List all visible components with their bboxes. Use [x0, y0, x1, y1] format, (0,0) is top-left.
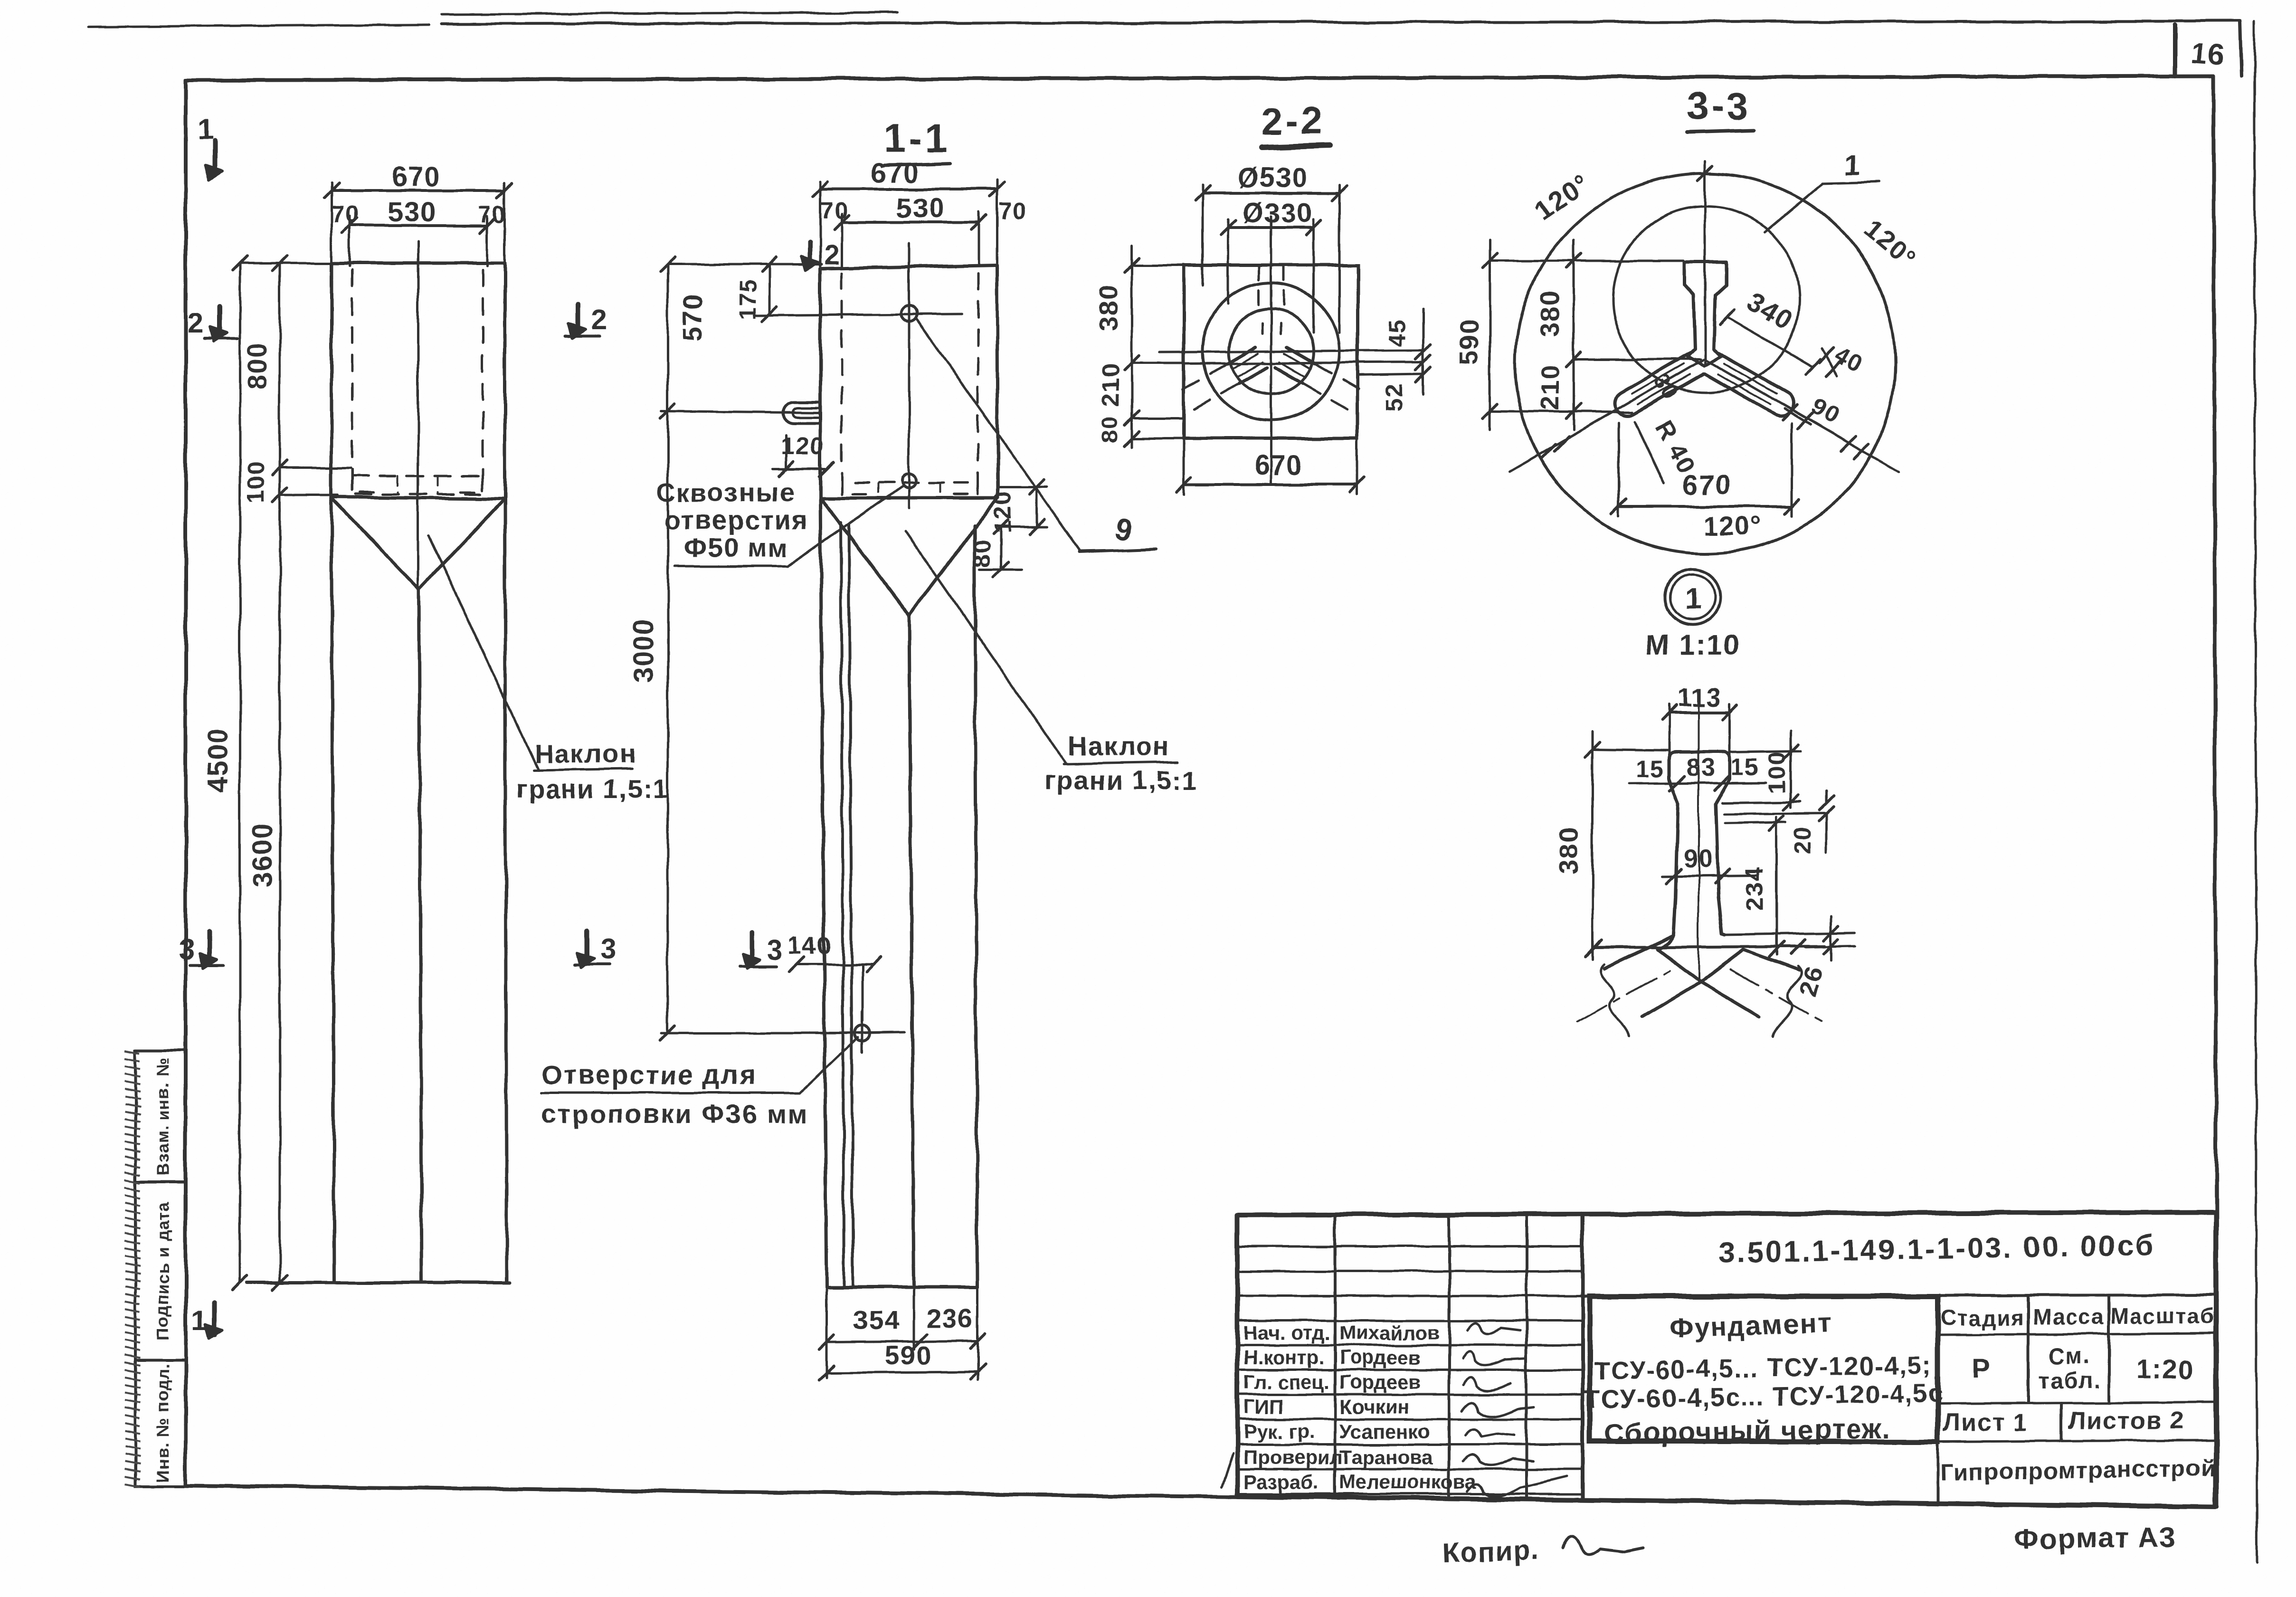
stamp hatch edge	[125, 1051, 140, 1487]
detail: dim 113	[1669, 711, 1730, 713]
left view: dim 800/100/3600 line	[279, 263, 281, 1283]
detail: dim 100	[1790, 732, 1792, 808]
3-3: R40 radius leader	[1635, 422, 1664, 484]
2-2: left dims 380/210/80	[1131, 246, 1133, 447]
1-1: leader to naklon grani right	[906, 532, 1066, 764]
2-2: lower-left leg	[1239, 367, 1267, 383]
1-1: shaft center leg line	[909, 616, 914, 1287]
left view: center line	[417, 241, 419, 589]
2-2: bottom dim 670	[1184, 483, 1357, 486]
section mark 3 right	[585, 931, 589, 961]
3-3: callout leader 1	[1765, 183, 1822, 232]
3-3: dim 380/210 left	[1573, 240, 1575, 430]
left view: shaft bottom edge	[247, 1281, 510, 1284]
2-2: right dims 45/52	[1422, 309, 1424, 394]
kopir signature	[1563, 1536, 1643, 1555]
2-2: lower-right leg	[1287, 347, 1315, 363]
left view: leader naklon grani	[428, 535, 538, 770]
section mark 1 top	[212, 141, 217, 174]
3-3: vertical centerline	[1704, 162, 1707, 366]
left view: extension lines left	[240, 262, 332, 265]
1-1: dim 570 / 3000 line	[667, 264, 669, 1033]
2-2: inner circle D330	[1228, 309, 1314, 394]
3-3: dim 90	[1784, 409, 1811, 425]
detail: dim 26	[1725, 933, 1855, 935]
left view: cup outline	[332, 263, 505, 499]
left stamp boxes	[135, 1049, 186, 1052]
detail: dim 90 web	[1662, 875, 1757, 876]
3-3: big circle	[1515, 173, 1895, 553]
1-1: right side dim 80	[979, 569, 1021, 571]
1-1: leader 9 from upper hole	[917, 319, 1080, 550]
left view: dim 530	[350, 224, 487, 227]
section mark 3 at 1-1	[750, 932, 755, 962]
right section verticals	[1936, 1296, 1939, 1505]
2-2: square outline	[1184, 265, 1357, 438]
3-3: rail section vertical leg	[1684, 262, 1726, 366]
detail: junction vee	[1657, 949, 1743, 982]
left view: shaft center leg edge	[419, 589, 422, 1283]
section mark 3 left	[207, 932, 212, 962]
name box heavy border	[1590, 1296, 1938, 1442]
detail: dim 234	[1775, 817, 1778, 955]
title block signature table verticals	[1334, 1215, 1337, 1497]
detail: dims 15/83/15	[1629, 783, 1766, 784]
page number box	[2173, 25, 2177, 76]
section mark 2 at 1-1	[808, 242, 813, 264]
left view: dim 670 top	[332, 189, 505, 192]
1-1: cavity bottom dashed profile	[842, 480, 874, 494]
1-1: center vertical line	[908, 244, 911, 508]
slash before proveril	[1222, 1454, 1233, 1487]
left view: cup cavity bottom dashed profile	[352, 475, 483, 477]
left view: cup inner dashed walls	[351, 270, 353, 475]
1-1: upper hole F50	[901, 305, 917, 322]
3-3: left leg slot	[1615, 352, 1704, 416]
left view: shaft left edge	[332, 497, 334, 1283]
1-1: lower hole F50	[902, 474, 916, 488]
1-1: shaft right edge	[974, 526, 977, 1287]
2-2: dim D530	[1203, 192, 1339, 195]
left view: dim 4500 line	[239, 263, 241, 1283]
1-1: shaft bottom edge	[826, 1286, 977, 1289]
1-1: cup dashed inner walls	[841, 273, 843, 480]
left view: taper V right	[419, 499, 505, 589]
1-1: bottom dim 590	[826, 1372, 977, 1373]
1-1: right side dim 120	[998, 486, 1047, 489]
3-3: dim 40 leg width	[1822, 349, 1837, 375]
detail: right leg	[1743, 950, 1799, 970]
2-2: second line 45 offset	[1184, 362, 1423, 363]
sheet right edge line	[2254, 22, 2257, 1563]
2-2: outer circle D530	[1203, 283, 1339, 420]
1-1: taper V left	[821, 499, 909, 616]
1-1: lifting loop on left face	[784, 402, 820, 423]
3-3: extensions left	[1490, 260, 1683, 262]
3-3: diagonal centerline right	[1704, 359, 1899, 472]
1-1: cup outline	[820, 265, 998, 498]
title block doc number cell	[1583, 1295, 2216, 1296]
1-1: shaft left edge	[820, 498, 826, 1287]
3-3: dim 340 along right leg	[1727, 317, 1812, 367]
sheet top edge line	[88, 25, 430, 27]
right section horizontals	[1938, 1333, 2216, 1335]
1-1: dim 120 loop	[785, 435, 787, 470]
2-2: center lines	[1270, 216, 1272, 485]
1-1: shaft inner pair lines	[841, 523, 844, 1287]
1-1: dim 530	[842, 221, 979, 224]
1-1: extension to 3000 dim	[662, 1032, 841, 1035]
detail: base line	[1594, 946, 1825, 948]
3-3: diagonal centerline left	[1509, 359, 1704, 472]
section mark 2 left	[217, 306, 222, 335]
3-3: right leg slot	[1705, 352, 1793, 416]
2-2: dim D330	[1228, 226, 1314, 229]
section mark 1 bottom	[212, 1302, 217, 1335]
section mark 2 right	[575, 304, 580, 333]
detail: rail profile	[1657, 752, 1730, 949]
3-3: bottom dim 670	[1619, 505, 1792, 508]
3-3: detail callout circle	[1613, 206, 1799, 392]
left view: shaft right edge	[505, 499, 507, 1283]
1-1: taper V right	[909, 499, 997, 616]
left view: taper V left	[332, 499, 419, 589]
signature scribbles	[1468, 1323, 1520, 1334]
drawing frame border	[186, 76, 2213, 80]
detail: center line	[1698, 694, 1699, 979]
2-2: upper leg dashed	[1258, 266, 1260, 314]
detail: left leg	[1604, 935, 1674, 969]
1-1: strapping hole	[854, 1026, 870, 1041]
1-1: extension line at loop level	[662, 411, 820, 413]
1-1: dim 140	[797, 963, 874, 966]
detail mark circle 1	[1665, 570, 1720, 625]
1-1: dim 175 line	[768, 264, 770, 314]
detail: dim 380	[1592, 732, 1594, 960]
1-1: dim 670	[820, 188, 997, 190]
title block signature table rows	[1237, 1245, 1583, 1248]
3-3: dim 590 left	[1489, 240, 1491, 430]
detail: dim 20	[1724, 813, 1827, 814]
1-1: extension verticals top	[819, 181, 822, 266]
1-1: bottom dim 354/236	[825, 1289, 828, 1378]
title block outer border	[1237, 1212, 2216, 1507]
